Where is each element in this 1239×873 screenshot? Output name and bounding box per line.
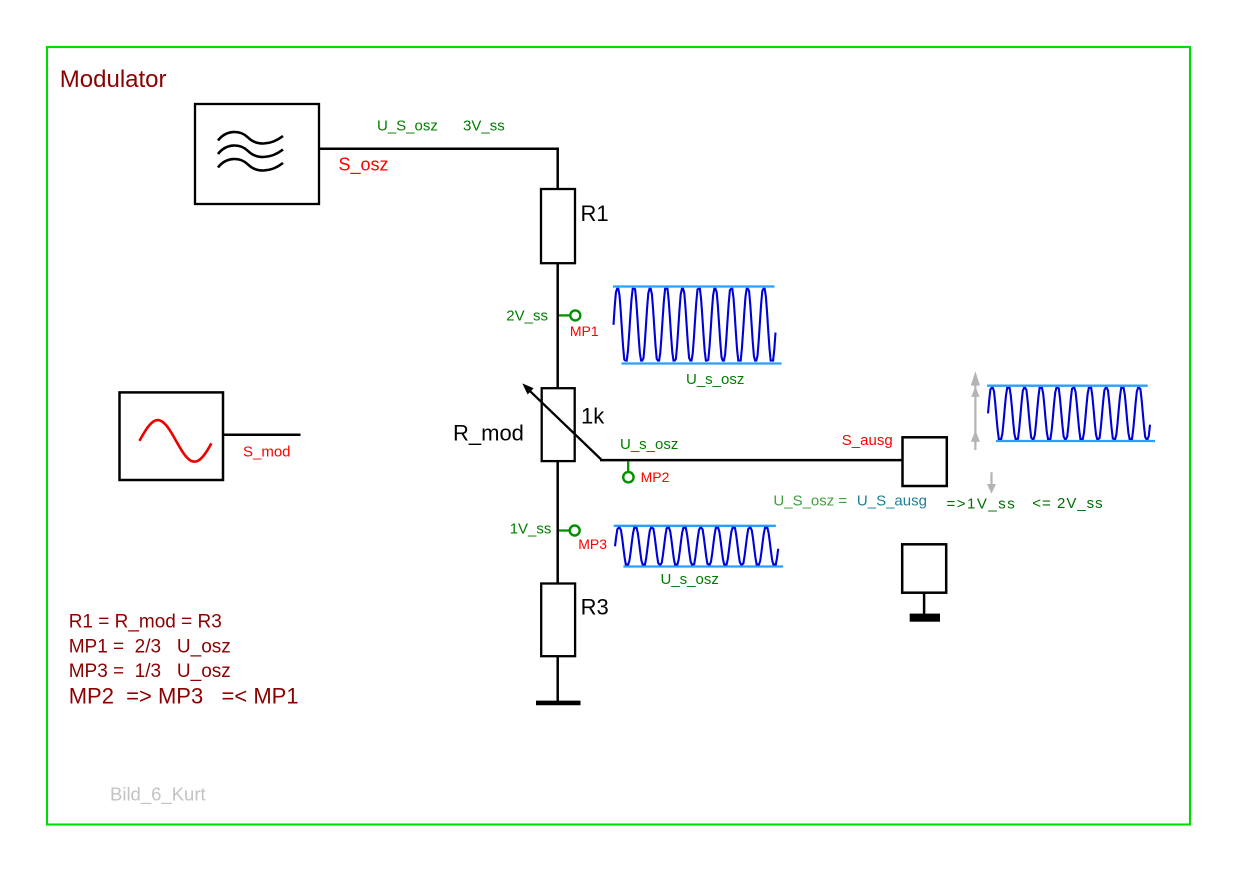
svg-text:U_S_osz =: U_S_osz = — [773, 493, 847, 510]
oscillator wave glyph 1 — [218, 132, 283, 144]
svg-text:U_S_ausg: U_S_ausg — [857, 493, 927, 510]
node MP3 stub — [559, 529, 570, 531]
svg-text:Bild_6_Kurt: Bild_6_Kurt — [110, 783, 206, 805]
gray up arrowhead 3 — [971, 431, 980, 442]
node MP1 stub — [559, 314, 570, 316]
node MP2 stub — [627, 461, 629, 472]
svg-text:S_ausg: S_ausg — [842, 432, 893, 449]
waveform 2 top level line — [614, 525, 776, 527]
wire R_mod to R3 — [556, 461, 559, 585]
waveform 2 sine U_s_osz — [615, 528, 778, 565]
gray down arrow — [990, 472, 992, 484]
waveform 1 bottom level line — [622, 362, 782, 364]
svg-text:1V_ss: 1V_ss — [510, 521, 552, 538]
waveform 3 top level line — [987, 385, 1148, 387]
waveform 2 bottom level line — [623, 565, 783, 567]
svg-text:1k: 1k — [581, 404, 605, 429]
svg-text:<= 2V_ss: <= 2V_ss — [1032, 495, 1103, 512]
svg-text:MP1 = 2/3 U_osz: MP1 = 2/3 U_osz — [69, 637, 231, 658]
waveform 1 sine U_s_osz — [614, 289, 776, 361]
S_mod source box — [120, 392, 224, 480]
gray down arrowhead — [987, 484, 996, 494]
svg-text:Modulator: Modulator — [60, 66, 167, 93]
output box S_ausg — [903, 437, 947, 486]
svg-text:S_osz: S_osz — [339, 155, 389, 176]
svg-text:2V_ss: 2V_ss — [506, 308, 548, 325]
resistor R1 — [541, 189, 575, 263]
svg-text:3V_ss: 3V_ss — [463, 118, 505, 135]
svg-text:MP3: MP3 — [578, 536, 607, 552]
speaker ground bar — [910, 614, 940, 622]
wire from S_mod box — [223, 433, 301, 436]
S_mod red sine — [139, 420, 211, 462]
waveform 3 bottom level line — [996, 440, 1155, 442]
node MP3 circle — [570, 526, 580, 536]
svg-text:U_s_osz: U_s_osz — [686, 371, 744, 388]
node MP1 circle — [570, 310, 580, 320]
gray range arrow line — [974, 384, 976, 450]
svg-text:R1 = R_mod = R3: R1 = R_mod = R3 — [69, 612, 222, 633]
svg-text:U_s_osz: U_s_osz — [620, 436, 678, 453]
svg-text:R_mod: R_mod — [453, 420, 524, 445]
wire oscillator to corner — [319, 148, 559, 151]
oscillator wave glyph 3 — [218, 159, 283, 171]
svg-text:MP1: MP1 — [570, 323, 599, 339]
potentiometer R_mod — [542, 388, 575, 461]
svg-text:MP2 => MP3 =< MP1: MP2 => MP3 =< MP1 — [69, 684, 299, 709]
gray up arrowhead 1 — [971, 371, 980, 385]
speaker stem wire — [923, 593, 926, 615]
oscillator box S_osz — [195, 104, 319, 204]
svg-text:U_S_osz: U_S_osz — [377, 118, 438, 135]
svg-text:R1: R1 — [581, 201, 609, 226]
wire wiper to output box — [600, 459, 904, 462]
potentiometer wiper arrow — [528, 389, 602, 460]
oscillator wave glyph 2 — [218, 146, 283, 158]
wiper arrowhead — [522, 383, 533, 394]
node MP2 circle — [623, 472, 633, 482]
svg-text:R3: R3 — [581, 595, 609, 620]
wire corner down to R1 — [556, 148, 559, 190]
svg-text:=>1V_ss: =>1V_ss — [947, 495, 1017, 512]
svg-text:U_s_osz: U_s_osz — [661, 571, 719, 588]
svg-text:MP2: MP2 — [641, 469, 670, 485]
wire R1 to R_mod — [556, 263, 559, 389]
wire R3 to ground — [556, 656, 559, 702]
waveform 1 top level line — [613, 285, 775, 287]
gray up arrowhead 2 — [971, 386, 979, 397]
svg-text:S_mod: S_mod — [243, 443, 291, 460]
svg-text:MP3 = 1/3 U_osz: MP3 = 1/3 U_osz — [69, 661, 231, 682]
speaker box — [902, 544, 946, 592]
ground — [536, 701, 581, 706]
waveform 3 sine output — [988, 388, 1150, 439]
resistor R3 — [541, 584, 575, 657]
